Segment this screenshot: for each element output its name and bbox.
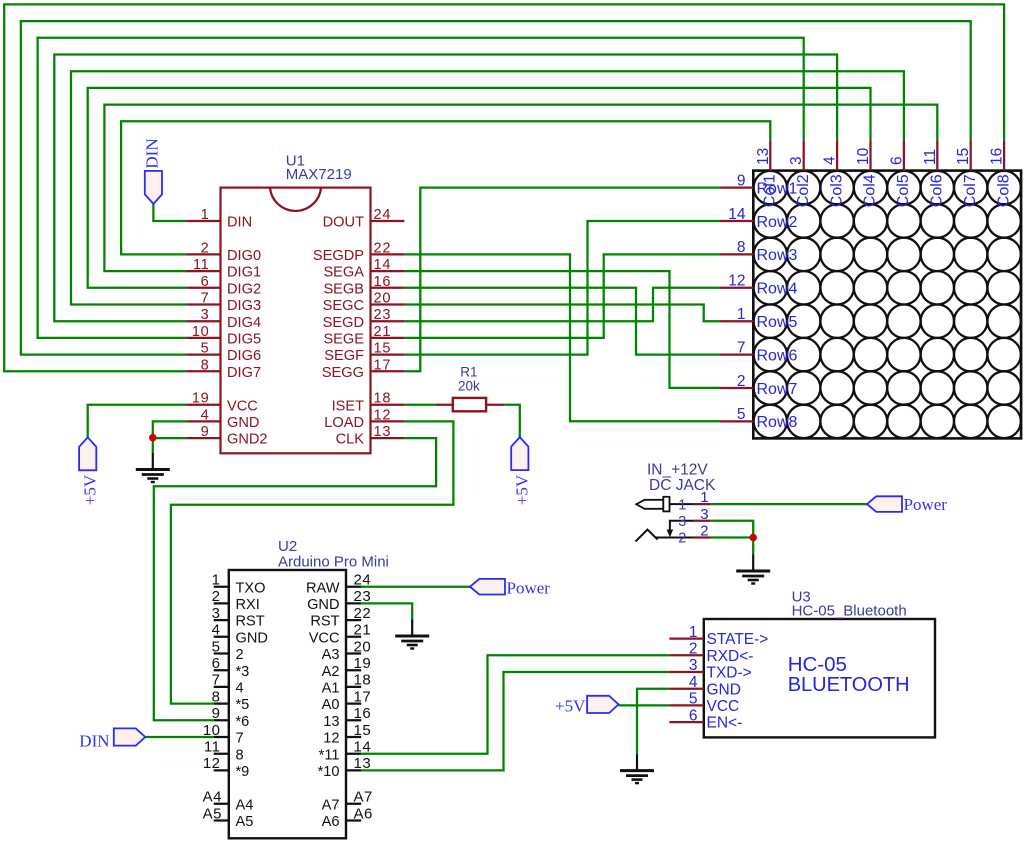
svg-text:STATE->: STATE->: [707, 631, 769, 648]
svg-text:2: 2: [700, 523, 708, 540]
svg-text:Power: Power: [507, 578, 551, 597]
svg-text:RXI: RXI: [236, 597, 260, 613]
svg-text:SEGG: SEGG: [322, 365, 364, 381]
svg-text:11: 11: [193, 257, 210, 273]
svg-text:5: 5: [737, 406, 746, 423]
svg-text:MAX7219: MAX7219: [286, 166, 352, 183]
svg-text:*5: *5: [236, 697, 250, 713]
svg-text:10: 10: [855, 147, 872, 165]
svg-text:6: 6: [201, 274, 210, 290]
svg-text:16: 16: [354, 705, 372, 722]
svg-text:A6: A6: [354, 805, 373, 822]
svg-text:A7: A7: [354, 789, 373, 806]
svg-text:3: 3: [689, 657, 698, 674]
svg-text:GND: GND: [707, 681, 741, 698]
svg-text:Row2: Row2: [757, 214, 798, 231]
svg-text:7: 7: [201, 291, 210, 307]
svg-text:13: 13: [354, 755, 372, 772]
svg-text:DIG3: DIG3: [227, 298, 261, 314]
svg-text:9: 9: [737, 172, 746, 189]
svg-text:EN<-: EN<-: [707, 715, 743, 732]
svg-text:SEGDP: SEGDP: [313, 248, 364, 264]
svg-text:23: 23: [374, 307, 392, 323]
svg-text:11: 11: [204, 739, 221, 756]
svg-text:14: 14: [728, 206, 746, 223]
svg-text:2: 2: [212, 588, 221, 605]
svg-text:RAW: RAW: [306, 580, 340, 596]
svg-text:GND: GND: [307, 597, 339, 613]
svg-text:A0: A0: [322, 697, 340, 713]
svg-text:HC-05_Bluetooth: HC-05_Bluetooth: [792, 602, 907, 619]
svg-text:17: 17: [354, 688, 372, 705]
svg-text:14: 14: [354, 739, 372, 756]
svg-text:24: 24: [374, 207, 392, 223]
svg-text:3: 3: [678, 514, 686, 530]
svg-text:13: 13: [323, 714, 339, 730]
svg-text:Row6: Row6: [757, 347, 798, 364]
svg-text:2: 2: [678, 531, 686, 547]
svg-text:1: 1: [212, 572, 221, 589]
svg-text:7: 7: [737, 339, 746, 356]
svg-text:BLUETOOTH: BLUETOOTH: [788, 674, 910, 696]
svg-text:22: 22: [354, 605, 372, 622]
svg-text:A5: A5: [236, 814, 254, 830]
svg-text:DIG2: DIG2: [227, 281, 261, 297]
svg-text:15: 15: [354, 722, 372, 739]
svg-text:4: 4: [212, 622, 221, 639]
svg-text:SEGB: SEGB: [323, 281, 364, 297]
svg-text:8: 8: [236, 747, 244, 763]
svg-text:6: 6: [212, 655, 221, 672]
svg-text:LOAD: LOAD: [324, 415, 364, 431]
svg-text:Row5: Row5: [757, 314, 798, 331]
svg-text:Arduino Pro Mini: Arduino Pro Mini: [278, 554, 389, 571]
svg-text:Row3: Row3: [757, 247, 798, 264]
svg-text:*9: *9: [236, 764, 250, 780]
svg-text:1: 1: [700, 489, 708, 506]
svg-text:DIG4: DIG4: [227, 315, 261, 331]
svg-text:11: 11: [922, 149, 939, 165]
svg-text:5: 5: [201, 341, 210, 357]
svg-text:SEGF: SEGF: [324, 348, 364, 364]
svg-text:GND: GND: [236, 630, 268, 646]
svg-text:4: 4: [236, 681, 244, 697]
svg-text:6: 6: [888, 156, 905, 165]
svg-text:15: 15: [374, 341, 392, 357]
svg-text:4: 4: [689, 674, 698, 691]
svg-text:18: 18: [374, 391, 392, 407]
svg-text:A6: A6: [322, 814, 340, 830]
svg-text:DIN: DIN: [79, 731, 109, 750]
svg-text:Row7: Row7: [757, 381, 798, 398]
svg-text:12: 12: [323, 731, 339, 747]
svg-text:4: 4: [201, 407, 210, 423]
svg-text:SEGD: SEGD: [323, 315, 364, 331]
svg-text:SEGE: SEGE: [323, 332, 364, 348]
svg-text:15: 15: [955, 148, 972, 165]
svg-text:24: 24: [354, 572, 372, 589]
svg-text:14: 14: [374, 257, 392, 273]
svg-text:SEGC: SEGC: [323, 298, 364, 314]
svg-text:21: 21: [354, 622, 372, 639]
svg-text:RST: RST: [310, 614, 339, 630]
svg-text:Col3: Col3: [828, 174, 845, 207]
svg-text:23: 23: [354, 588, 372, 605]
svg-text:Col6: Col6: [929, 174, 946, 207]
svg-text:GND2: GND2: [227, 432, 268, 448]
svg-text:DIG5: DIG5: [227, 332, 261, 348]
svg-text:2: 2: [689, 641, 698, 658]
svg-text:20: 20: [354, 638, 372, 655]
svg-text:DIG0: DIG0: [227, 248, 261, 264]
svg-text:17: 17: [374, 357, 392, 373]
svg-text:13: 13: [755, 148, 772, 165]
svg-text:Col8: Col8: [995, 174, 1012, 207]
svg-text:13: 13: [374, 424, 392, 440]
svg-text:RST: RST: [236, 614, 265, 630]
svg-text:Col2: Col2: [795, 174, 812, 207]
svg-text:+5V: +5V: [81, 474, 100, 505]
svg-text:DIN: DIN: [143, 138, 162, 168]
svg-text:DIN: DIN: [227, 215, 252, 231]
svg-text:*11: *11: [319, 747, 340, 763]
svg-text:Row4: Row4: [757, 281, 798, 298]
svg-text:A4: A4: [203, 789, 222, 806]
svg-text:4: 4: [822, 156, 839, 165]
svg-text:5: 5: [212, 638, 221, 655]
svg-text:3: 3: [788, 156, 805, 165]
svg-text:8: 8: [201, 357, 210, 373]
svg-text:3: 3: [201, 307, 210, 323]
svg-text:Col1: Col1: [762, 174, 779, 207]
svg-text:1: 1: [689, 624, 698, 641]
svg-text:19: 19: [192, 391, 210, 407]
svg-text:SEGA: SEGA: [323, 265, 364, 281]
svg-text:A7: A7: [322, 797, 340, 813]
svg-text:A4: A4: [236, 797, 254, 813]
svg-text:3: 3: [700, 506, 708, 523]
svg-text:20k: 20k: [458, 379, 480, 394]
svg-text:2: 2: [737, 373, 746, 390]
svg-text:VCC: VCC: [309, 630, 340, 646]
svg-text:Power: Power: [904, 495, 948, 514]
svg-text:+5V: +5V: [513, 474, 532, 505]
svg-text:2: 2: [236, 647, 244, 663]
svg-text:6: 6: [689, 707, 698, 724]
svg-text:TXD->: TXD->: [707, 665, 752, 682]
svg-text:A1: A1: [322, 681, 340, 697]
svg-text:1: 1: [678, 497, 686, 513]
svg-text:VCC: VCC: [707, 698, 740, 715]
svg-text:20: 20: [374, 291, 392, 307]
svg-text:Col4: Col4: [862, 174, 879, 207]
svg-text:A2: A2: [322, 664, 340, 680]
svg-text:+5V: +5V: [555, 697, 586, 716]
svg-text:16: 16: [989, 148, 1006, 165]
svg-text:10: 10: [203, 722, 221, 739]
svg-text:VCC: VCC: [227, 398, 258, 414]
svg-text:DIG1: DIG1: [227, 265, 261, 281]
svg-text:22: 22: [374, 240, 392, 256]
svg-text:7: 7: [236, 731, 244, 747]
svg-text:R1: R1: [460, 364, 477, 379]
svg-text:TXO: TXO: [236, 580, 266, 596]
svg-text:RXD<-: RXD<-: [707, 648, 754, 665]
svg-text:DOUT: DOUT: [323, 215, 364, 231]
svg-text:*10: *10: [318, 764, 340, 780]
svg-text:ISET: ISET: [332, 398, 365, 414]
svg-text:5: 5: [689, 691, 698, 708]
svg-text:*3: *3: [236, 664, 250, 680]
svg-text:DIG6: DIG6: [227, 348, 261, 364]
svg-text:7: 7: [212, 672, 221, 689]
svg-text:2: 2: [201, 240, 210, 256]
svg-text:HC-05: HC-05: [788, 653, 847, 676]
svg-text:8: 8: [212, 688, 221, 705]
svg-text:8: 8: [737, 239, 746, 256]
svg-text:9: 9: [201, 424, 210, 440]
svg-text:3: 3: [212, 605, 221, 622]
svg-text:18: 18: [354, 672, 372, 689]
svg-text:Row8: Row8: [757, 414, 798, 431]
svg-text:12: 12: [728, 273, 745, 290]
svg-text:12: 12: [374, 407, 392, 423]
svg-text:Col5: Col5: [895, 174, 912, 207]
svg-text:19: 19: [354, 655, 372, 672]
svg-text:16: 16: [374, 274, 392, 290]
svg-text:1: 1: [737, 306, 746, 323]
svg-text:GND: GND: [227, 415, 259, 431]
svg-text:A3: A3: [322, 647, 340, 663]
svg-text:10: 10: [192, 324, 210, 340]
svg-text:12: 12: [203, 755, 221, 772]
svg-text:1: 1: [201, 207, 210, 223]
svg-text:Col7: Col7: [962, 174, 979, 207]
svg-text:DIG7: DIG7: [227, 365, 261, 381]
svg-text:*6: *6: [236, 714, 250, 730]
svg-text:CLK: CLK: [336, 432, 365, 448]
svg-text:21: 21: [374, 324, 392, 340]
svg-text:9: 9: [212, 705, 221, 722]
svg-text:A5: A5: [203, 805, 222, 822]
